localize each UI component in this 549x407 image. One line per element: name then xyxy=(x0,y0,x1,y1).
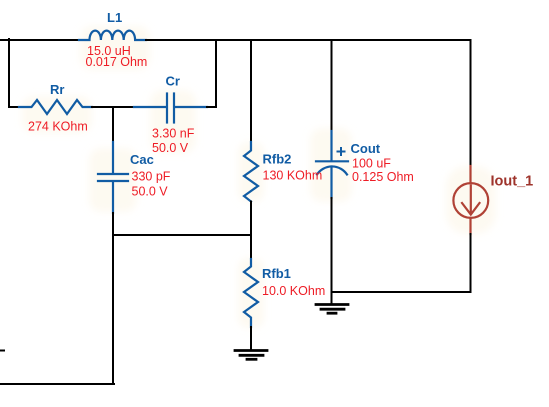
svg-text:100 uF: 100 uF xyxy=(352,157,391,171)
svg-text:274 KOhm: 274 KOhm xyxy=(28,120,88,134)
value 3.30 nF xyxy=(152,127,195,141)
label Iout_1 xyxy=(491,174,534,190)
wire top rail left xyxy=(0,39,79,41)
wire bottom left horizontal xyxy=(0,383,114,385)
svg-text:L1: L1 xyxy=(107,10,122,25)
svg-text:Rfb2: Rfb2 xyxy=(263,152,292,167)
wire ground stem at Cout xyxy=(331,292,333,303)
wire Rfb2 to Rfb1 xyxy=(250,202,252,260)
wire Iout branch top xyxy=(470,40,472,166)
wire Cout branch lower xyxy=(331,198,333,292)
wire Cac branch upper xyxy=(112,107,114,142)
wire Iout branch bottom xyxy=(470,234,472,292)
label Rfb2 xyxy=(263,152,292,167)
wire Rfb2 branch top xyxy=(250,40,252,142)
wire left edge stub xyxy=(0,350,4,352)
label Cac xyxy=(130,152,154,167)
svg-text:330 pF: 330 pF xyxy=(132,170,171,184)
capacitor Cr xyxy=(134,94,207,123)
value 50.0 V of Cac xyxy=(132,185,169,199)
wire left vertical xyxy=(8,39,10,107)
capacitor Cac xyxy=(98,142,128,213)
svg-text:0.017 Ohm: 0.017 Ohm xyxy=(86,55,148,69)
svg-text:3.30 nF: 3.30 nF xyxy=(152,127,195,141)
label L1 xyxy=(107,10,122,25)
value 0.125 Ohm xyxy=(352,170,414,184)
resistor Rr xyxy=(19,100,92,114)
resistor Rfb2 xyxy=(244,142,258,202)
label Cout xyxy=(351,141,381,156)
capacitor Cout xyxy=(316,131,348,198)
wire Rr to Cr xyxy=(92,106,134,108)
wire Cac branch lower xyxy=(112,213,114,384)
wire Cout branch top xyxy=(331,40,333,131)
svg-text:0.125 Ohm: 0.125 Ohm xyxy=(352,170,414,184)
value 274 KOhm xyxy=(28,120,88,134)
current source Iout_1 xyxy=(453,166,488,234)
ground under Rfb1 xyxy=(235,351,267,360)
label Rfb1 xyxy=(262,266,291,281)
label Cr xyxy=(166,74,180,89)
inductor L1 xyxy=(79,31,146,40)
svg-text:Rr: Rr xyxy=(50,82,64,97)
value 100 uF xyxy=(352,157,391,171)
label Rr xyxy=(50,82,64,97)
plus polarity mark xyxy=(338,148,345,155)
value 15.0 uH xyxy=(87,44,131,58)
resistor Rfb1 xyxy=(244,259,258,327)
wire Rfb1 to ground xyxy=(250,327,252,349)
value 330 pF xyxy=(132,170,171,184)
svg-text:50.0 V: 50.0 V xyxy=(132,185,169,199)
value 0.017 Ohm xyxy=(86,55,148,69)
wire Rr row left stub xyxy=(9,106,19,108)
svg-text:Rfb1: Rfb1 xyxy=(262,266,291,281)
svg-text:130 KOhm: 130 KOhm xyxy=(263,168,323,182)
svg-text:Cout: Cout xyxy=(351,141,381,156)
svg-text:Cac: Cac xyxy=(130,152,154,167)
value 130 KOhm xyxy=(263,168,323,182)
wire top rail right xyxy=(146,39,471,41)
wire node Cac to Rfb junction xyxy=(113,234,251,236)
svg-text:Cr: Cr xyxy=(166,74,180,89)
wire Cr corner to top rail xyxy=(207,40,216,107)
svg-text:10.0 KOhm: 10.0 KOhm xyxy=(262,284,325,298)
value 10.0 KOhm xyxy=(262,284,325,298)
svg-text:Iout_1: Iout_1 xyxy=(491,174,534,190)
ground under Cout xyxy=(316,305,348,314)
value 50.0 V of Cr xyxy=(152,141,189,155)
svg-text:50.0 V: 50.0 V xyxy=(152,141,189,155)
wire output bottom horizontal xyxy=(332,291,471,293)
